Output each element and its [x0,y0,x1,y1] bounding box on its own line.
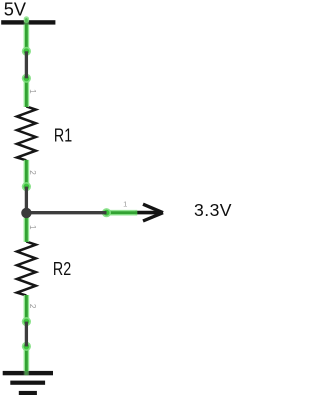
pin R1.1 (green highlighted) [22,74,37,107]
R1 zigzag body [17,106,36,160]
svg-text:2: 2 [28,304,37,309]
svg-text:3.3V: 3.3V [194,200,232,220]
pin GND (green highlighted) [22,342,31,376]
wire R2 to ground [25,322,28,347]
arrow shaft [135,211,161,215]
pin R1.2 (green highlighted) [22,160,37,191]
R2 zigzag body [17,242,36,296]
output arrow symbol [135,200,232,221]
pin arrow.1 (green highlighted) [102,200,137,218]
5V rail bar [1,20,55,24]
resistor R1 [17,106,72,160]
resistor R2 [17,242,71,296]
wire 5V to R1 [25,51,28,78]
power rail 5V [1,0,55,25]
svg-text:1: 1 [28,225,37,230]
wire node to arrow [26,211,106,214]
pin 5V (green highlighted) [22,19,31,56]
svg-text:5V: 5V [4,0,27,20]
svg-text:1: 1 [28,89,37,94]
svg-text:2: 2 [28,170,37,175]
svg-text:R1: R1 [54,126,72,146]
svg-text:R2: R2 [53,259,71,279]
wire R1 to node [25,187,28,213]
ground symbol [3,371,53,395]
pin R2.1 (green highlighted) [26,213,37,242]
svg-text:1: 1 [123,200,127,209]
node junction dot [21,208,31,218]
pin R2.2 (green highlighted) [22,295,37,326]
arrow chevron [143,204,163,213]
